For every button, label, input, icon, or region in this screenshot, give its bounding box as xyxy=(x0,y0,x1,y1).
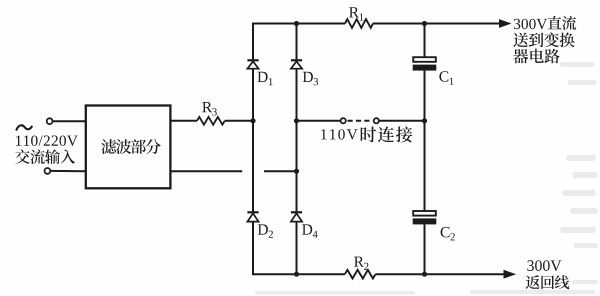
capacitor C2 xyxy=(413,211,436,216)
label 300V return xyxy=(527,260,561,271)
node junction bottom C2 xyxy=(422,272,427,277)
label shi lianjie xyxy=(361,126,413,142)
label qi dianlu xyxy=(513,49,559,64)
wire xyxy=(296,171,298,211)
label 110V xyxy=(321,129,357,139)
filter box xyxy=(86,106,171,189)
wire xyxy=(51,170,86,172)
terminal link right xyxy=(374,118,379,123)
wire xyxy=(296,222,298,275)
capacitor C1 xyxy=(413,57,436,62)
label lvbo bufen xyxy=(101,139,160,154)
wire xyxy=(297,120,341,122)
label R3 xyxy=(202,102,217,116)
label C2 xyxy=(441,227,455,241)
wire xyxy=(252,273,345,275)
wire xyxy=(264,170,297,172)
diode D2 xyxy=(247,211,258,213)
wire xyxy=(252,222,254,276)
node junction link D3 D4 xyxy=(294,118,299,123)
diode D1 xyxy=(247,59,258,61)
wire xyxy=(253,23,345,25)
diode D3 xyxy=(291,59,302,61)
wire xyxy=(296,121,298,171)
wire xyxy=(252,69,254,121)
wire xyxy=(53,120,85,122)
wire arrow return line xyxy=(504,270,517,279)
scan bleed-through artifacts xyxy=(255,62,598,295)
label AC tilde xyxy=(17,125,32,130)
terminal link left xyxy=(341,118,346,123)
wire xyxy=(225,120,253,122)
resistor R3 xyxy=(197,117,225,125)
node junction top C1 xyxy=(422,21,427,26)
terminal input top xyxy=(47,118,53,124)
wire xyxy=(424,224,426,274)
node junction top D3 xyxy=(294,21,299,26)
label songdao bianhuan xyxy=(513,32,574,47)
wire xyxy=(376,273,506,275)
wire xyxy=(296,24,298,60)
resistor R1 xyxy=(345,19,373,28)
label R2 xyxy=(354,257,368,270)
wire xyxy=(252,23,254,60)
wire xyxy=(171,120,197,122)
wire xyxy=(424,121,426,211)
resistor R2 xyxy=(345,270,376,279)
wire arrow to converter xyxy=(499,19,512,28)
wire xyxy=(373,23,501,25)
wire xyxy=(171,170,242,172)
label 110/220V xyxy=(16,136,78,146)
node junction R3 D1 D2 xyxy=(250,118,255,123)
node junction AC2 xyxy=(294,169,299,174)
label 300V DC output xyxy=(514,19,547,29)
diode D4 xyxy=(291,211,302,213)
terminal input bottom xyxy=(45,168,51,174)
label D4 xyxy=(302,224,318,237)
label D2 xyxy=(258,224,273,237)
wire xyxy=(424,24,426,57)
label D3 xyxy=(303,72,318,86)
node junction link C1 C2 xyxy=(422,118,427,123)
wire xyxy=(379,120,425,122)
label zhiliu xyxy=(548,16,577,30)
node junction bottom D4 xyxy=(294,272,299,277)
wire xyxy=(424,71,426,121)
wire dashed link xyxy=(348,120,373,122)
label D1 xyxy=(257,72,272,85)
wire xyxy=(296,69,298,121)
label C1 xyxy=(439,71,453,85)
label R1 xyxy=(349,7,363,20)
label fanhui xian xyxy=(526,275,570,289)
wire xyxy=(252,121,254,212)
label jiaoliu shuru xyxy=(15,149,75,164)
